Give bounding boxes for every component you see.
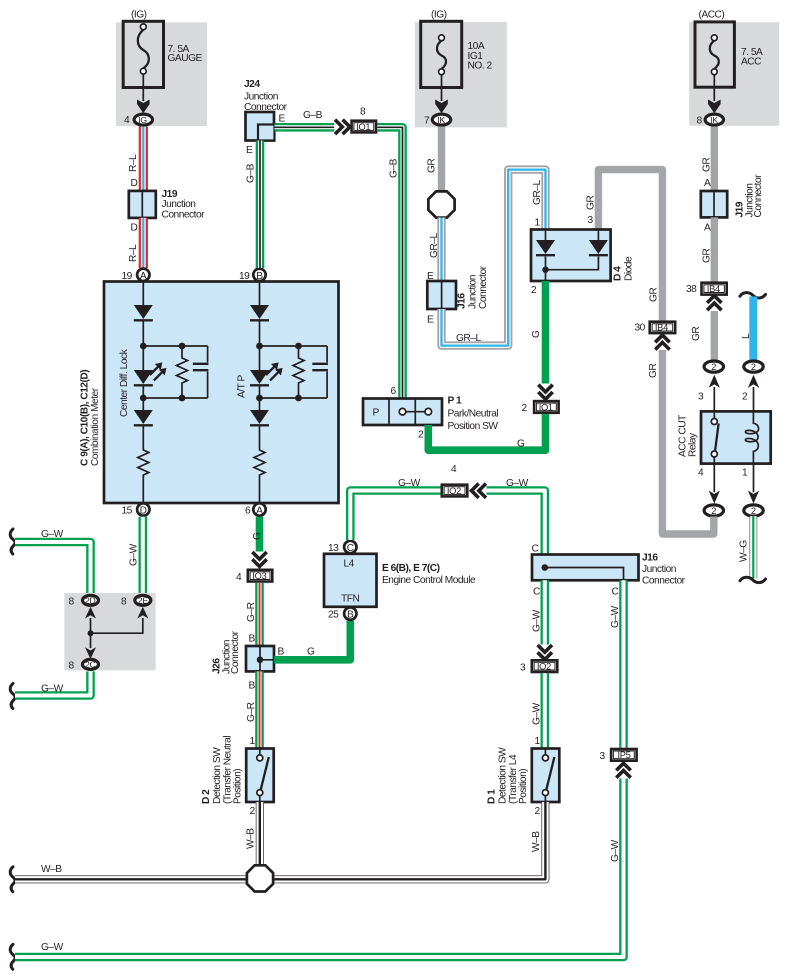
svg-text:Park/Neutral: Park/Neutral [448,409,499,420]
svg-text:Position): Position) [233,769,244,804]
svg-text:GR: GR [586,196,597,210]
wire GR : IK to J19 right [702,127,715,192]
svg-text:2: 2 [742,392,748,403]
svg-text:G–R: G–R [246,602,257,622]
svg-text:2: 2 [711,506,716,516]
meter left branch wire [142,282,144,306]
node (meter left upper) [140,343,208,350]
wire GR-L : J16 to diode D4 pin 1 [442,170,546,346]
svg-text:IP5: IP5 [618,750,631,760]
fuse block (IG) middle [415,22,507,128]
chevron down above IO2 (3) [538,645,552,660]
connector 2 (relay pin 1 bottom) [744,505,763,516]
wire GR : IB4 38 to connector 2 [691,311,714,361]
svg-text:P 1: P 1 [448,396,462,407]
junction connector J24 [244,79,288,141]
svg-text:C: C [532,544,539,555]
svg-text:3: 3 [588,215,594,226]
svg-text:G–B: G–B [389,158,400,178]
wire L : break to connector 2 [740,293,766,361]
wire R-L : J19 to pin A [128,218,143,268]
svg-text:J24: J24 [244,79,260,90]
wire G-W : J16 to IO2 (3) [532,580,545,644]
svg-text:2: 2 [250,806,256,817]
svg-text:Relay: Relay [688,432,699,457]
wire GR : J19 to IB4 38 [702,217,715,281]
svg-text:G–W: G–W [532,609,543,632]
svg-text:38: 38 [686,284,697,295]
wire G : D4 pin 2 to IO1 tag [531,281,546,384]
svg-text:E: E [427,315,434,326]
svg-text:ACC: ACC [741,57,761,68]
svg-text:G–B: G–B [246,163,257,183]
chevron up below IB4 30 [655,335,669,350]
svg-text:Junction: Junction [468,275,479,309]
svg-text:6: 6 [245,505,251,516]
junction connector J19 (left) [129,189,205,221]
svg-text:A/T P: A/T P [237,375,248,398]
svg-text:(IG): (IG) [131,10,147,21]
fuse 10A IG1 NO.2 [421,10,493,88]
svg-text:2: 2 [522,403,528,414]
chevron down above IO1 (2) [538,385,552,400]
arrow relay pin 1 to connector [742,464,759,504]
svg-text:D 1: D 1 [487,789,498,804]
LED A/T P [250,346,283,398]
svg-text:B: B [278,647,285,658]
pin 15 D (meter) [122,503,150,516]
svg-text:NO. 2: NO. 2 [468,61,493,72]
diode (meter left top) [134,305,153,346]
svg-text:Position SW: Position SW [448,421,499,432]
svg-text:C: C [612,587,619,598]
arrow relay pin 3 to connector [698,375,720,412]
connector 2 (relay pin 4 bottom) [704,505,723,516]
svg-text:30: 30 [635,323,646,334]
svg-text:GR: GR [702,249,713,263]
chevron down above IO3 [252,552,266,567]
svg-text:TFN: TFN [341,594,359,605]
svg-text:1: 1 [535,736,541,747]
svg-text:6: 6 [391,386,397,397]
svg-text:Connector: Connector [753,174,764,218]
junction connector J26 [212,630,285,674]
wire R-L : IG to J19 [128,127,143,192]
svg-text:Combination Meter: Combination Meter [90,387,101,466]
octagon splice (GR / GR-L) [428,191,454,217]
svg-text:4: 4 [124,115,130,126]
svg-text:D 2: D 2 [201,789,212,804]
tag 30 IB4 [635,322,676,334]
svg-text:IO1: IO1 [356,122,370,132]
node (meter right lower) [256,395,327,402]
svg-text:IO2: IO2 [447,486,461,496]
svg-text:W–B: W–B [246,828,257,849]
svg-text:8: 8 [69,660,75,671]
svg-text:GR: GR [427,159,438,173]
chevron left after IO2 [472,484,487,498]
wire G-W : IO2 to J16 top C [487,478,545,555]
svg-text:G: G [252,532,263,540]
svg-text:8: 8 [360,107,366,118]
svg-text:G–W: G–W [610,605,621,628]
connector 7 (IK) [424,114,451,126]
resistor (meter right series) [254,398,265,502]
wire GR : diode D4 pin 3 to IB4 30 [586,170,663,321]
arrow relay pin 4 to connector [698,464,720,504]
wire G-W : ECM pin C to IO2 tag [350,478,440,540]
wire G-W : J16 to IP5 tag [610,580,624,747]
fuse block (IG) left [116,22,207,126]
svg-text:25: 25 [328,610,339,621]
wire G : meter pin A to IO3 tag [252,517,263,552]
wire G-B : J24 to pin B [246,141,261,269]
svg-text:1: 1 [742,468,748,479]
svg-text:2: 2 [751,506,756,516]
svg-text:Junction: Junction [244,92,278,103]
chevron right before IO1 [335,120,350,134]
svg-text:W–G: W–G [739,540,750,562]
svg-text:IB4: IB4 [707,284,720,294]
svg-text:B: B [347,610,354,621]
junction connector J19 (right) [701,174,764,234]
svg-text:L4: L4 [344,559,355,570]
node (meter left lower) [140,395,208,402]
pin 6 A (meter bottom) [245,503,266,516]
svg-text:E 6(B), E 7(C): E 6(B), E 7(C) [382,563,440,574]
svg-text:(IG): (IG) [431,10,447,21]
svg-text:Detection SW: Detection SW [498,747,509,804]
diode D4 [531,230,635,297]
svg-text:W–B: W–B [41,864,62,875]
wire G-W : pin D to 2E [129,517,143,594]
LED Center Diff. Lock [134,346,167,398]
connector 2 (relay pin 2 top) [744,361,763,372]
svg-text:IB4: IB4 [655,323,668,333]
resistor (meter right parallel) [293,346,304,398]
svg-text:2: 2 [711,362,716,372]
svg-text:G–W: G–W [398,478,421,489]
svg-text:G–W: G–W [129,543,140,566]
svg-text:E: E [246,145,253,156]
svg-text:2D: 2D [85,595,96,605]
svg-text:3: 3 [698,392,704,403]
svg-text:Center Diff. Lock: Center Diff. Lock [119,348,130,417]
wire G-R : J26 to D2 pin 1 [246,671,260,748]
svg-text:1: 1 [535,218,541,229]
svg-text:G–W: G–W [532,702,543,725]
svg-text:(ACC): (ACC) [699,10,725,21]
svg-text:G: G [307,647,315,658]
wire G-W : 2C to left break [10,671,90,708]
pin 19 B (meter) [239,269,266,283]
svg-text:3: 3 [520,663,526,674]
svg-text:G: G [531,330,542,338]
fuse 7.5A ACC [695,10,763,88]
svg-text:B: B [249,634,256,645]
svg-text:8: 8 [697,116,703,127]
svg-text:D 4: D 4 [613,266,624,281]
svg-text:Diode: Diode [624,256,635,281]
combination meter C9(A), C10(B), C12(D) [80,282,339,504]
wire W-B : D2 to octagon splice [246,802,260,866]
diode (meter right bottom) [250,410,269,425]
arrow relay pin 2 to connector [742,375,759,412]
svg-text:D: D [131,222,138,233]
svg-text:J16: J16 [457,293,468,309]
svg-text:4: 4 [451,464,457,475]
fuse 7.5A GAUGE [123,10,202,88]
svg-text:2: 2 [418,430,424,441]
detection switch D2 (transfer neutral position) [201,736,274,817]
ACC cut relay [678,411,771,463]
wire G : IO1 to P1 pin 2 [428,414,545,450]
wire G-R : IO3 to J26 [246,583,260,646]
svg-text:G–W: G–W [41,684,64,695]
svg-text:2C: 2C [85,659,96,669]
svg-text:A: A [704,178,711,189]
svg-text:Connector: Connector [230,630,241,674]
capacitor (meter right parallel) [312,346,328,398]
svg-text:G–W: G–W [41,529,64,540]
svg-text:Junction: Junction [642,564,676,575]
svg-text:J16: J16 [642,553,658,564]
svg-text:4: 4 [698,468,704,479]
svg-text:Engine Control Module: Engine Control Module [382,575,476,586]
svg-text:4: 4 [236,572,242,583]
svg-text:IK: IK [710,115,718,125]
svg-text:2: 2 [531,285,537,296]
connector 2 (relay pin 3 top) [704,361,723,372]
svg-text:Connector: Connector [478,265,489,309]
svg-text:A: A [256,505,263,516]
connector 4 (IG) [124,114,153,126]
svg-text:8: 8 [69,596,75,607]
connector 8 (IK) [697,114,724,126]
svg-text:G–R: G–R [246,702,257,722]
svg-text:A: A [704,223,711,234]
svg-text:P: P [373,408,380,419]
detection switch D1 (transfer L4 position) [487,747,560,817]
svg-text:G–W: G–W [41,942,64,953]
arrow fuse to connector 7 IK [435,75,448,114]
engine control module E6(B) E7(C) [324,554,476,607]
svg-text:GR: GR [648,364,659,378]
svg-text:IO1: IO1 [539,402,553,412]
svg-text:G: G [517,439,525,450]
wire W-G : connector 2 to break [739,516,766,582]
svg-text:2: 2 [751,362,756,372]
svg-text:GR–L: GR–L [532,180,543,205]
tag 38 IB4 [686,283,727,296]
arrow fuse to connector 4 IG [137,74,150,113]
octagon splice (W-B) [247,865,273,891]
connector 8 2D [69,595,99,607]
pin 13 C (ECM) [328,541,356,554]
wire G-B : IO1 to P1 pin 6 [377,127,402,398]
svg-text:GAUGE: GAUGE [168,53,203,64]
pin 25 B (ECM) [328,607,356,620]
svg-text:Connector: Connector [162,209,206,220]
svg-text:13: 13 [328,543,339,554]
svg-text:W–B: W–B [531,831,542,852]
svg-text:J19: J19 [162,189,178,200]
tag 3 IP5 [600,749,637,762]
park/neutral position switch P1 [363,396,498,441]
svg-text:3: 3 [600,751,606,762]
svg-text:IK: IK [437,115,445,125]
wire GR : IB4 30 to relay pin 4 connector [648,350,714,534]
svg-text:R–L: R–L [128,154,139,172]
capacitor (meter left parallel) [193,346,209,398]
svg-text:IO3: IO3 [252,571,266,581]
resistor (meter left parallel) [177,346,188,398]
svg-text:Connector: Connector [244,102,288,113]
diode (meter right top) [250,305,269,346]
arrow fuse to connector 8 IK [708,75,721,114]
svg-text:GR–L: GR–L [429,233,440,258]
chevron up below IP5 [616,763,630,778]
meter right branch wire [259,282,261,306]
svg-text:L: L [741,333,752,339]
svg-text:R–L: R–L [128,244,139,262]
svg-text:G–W: G–W [506,478,529,489]
tag 8 IO1 [352,107,377,133]
connector 8 2C [69,659,99,671]
node (meter right upper) [256,343,327,350]
wire G-W : IO2 to D1 pin 1 [532,673,545,748]
svg-text:7: 7 [424,116,430,127]
junction connector J16 (wide) [532,553,686,598]
svg-text:IO2: IO2 [537,662,551,672]
svg-text:C: C [533,587,540,598]
svg-text:Detection SW: Detection SW [212,747,223,804]
svg-text:C: C [347,543,354,554]
svg-text:15: 15 [122,505,133,516]
pin 19 A (meter) [122,269,150,283]
svg-text:D: D [131,178,138,189]
tag 2 IO1 [522,401,559,414]
svg-text:GR: GR [702,158,713,172]
svg-text:E: E [279,114,286,125]
svg-text:2: 2 [535,806,541,817]
wire GR : IK to octagon splice [427,127,442,193]
arrows and junction inside grey block [85,607,148,659]
diode (meter left bottom) [134,410,153,425]
wire G : J26 to ECM pin 25 B [274,621,350,660]
svg-text:2E: 2E [138,595,149,605]
tag 4 IO2 [442,464,468,496]
wire G-W : left break to 2D [10,529,90,594]
svg-text:G–W: G–W [610,839,621,862]
svg-text:8: 8 [121,596,127,607]
svg-text:Connector: Connector [642,576,686,587]
fuse block (ACC) [689,22,779,126]
tag 4 IO3 [236,570,272,583]
connector 8 2E [121,595,151,607]
wire G-B : J24 to IO1 tag [275,110,335,127]
chevron up below IB4 38 [707,296,721,311]
svg-text:IG: IG [138,115,147,125]
svg-text:GR–L: GR–L [456,333,481,344]
wire G-W : IP5 to bottom run and left break [10,779,623,970]
wire GR-L : octagon to J16 [427,218,442,283]
wire W-B : D1 to horizontal run and left break [10,802,545,892]
svg-text:GR: GR [649,288,660,302]
svg-text:B: B [249,681,256,692]
svg-text:1: 1 [250,736,256,747]
junction connector J16 (GR-L) [427,265,489,325]
resistor (meter left series) [138,398,149,502]
svg-text:D: D [140,505,147,516]
svg-text:G–B: G–B [303,110,323,121]
svg-text:GR: GR [691,327,702,341]
tag 3 IO2 [520,660,557,673]
connector block grey (transfer) [64,593,155,670]
svg-text:Position): Position) [518,769,529,804]
svg-text:C 9(A), C10(B), C12(D): C 9(A), C10(B), C12(D) [80,370,91,466]
